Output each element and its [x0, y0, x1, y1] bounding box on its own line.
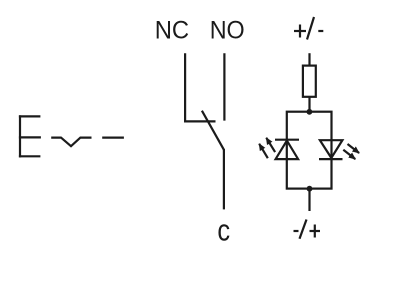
svg-text:c: c — [217, 214, 230, 248]
svg-text:NC: NC — [155, 17, 189, 45]
svg-text:NO: NO — [210, 17, 245, 45]
